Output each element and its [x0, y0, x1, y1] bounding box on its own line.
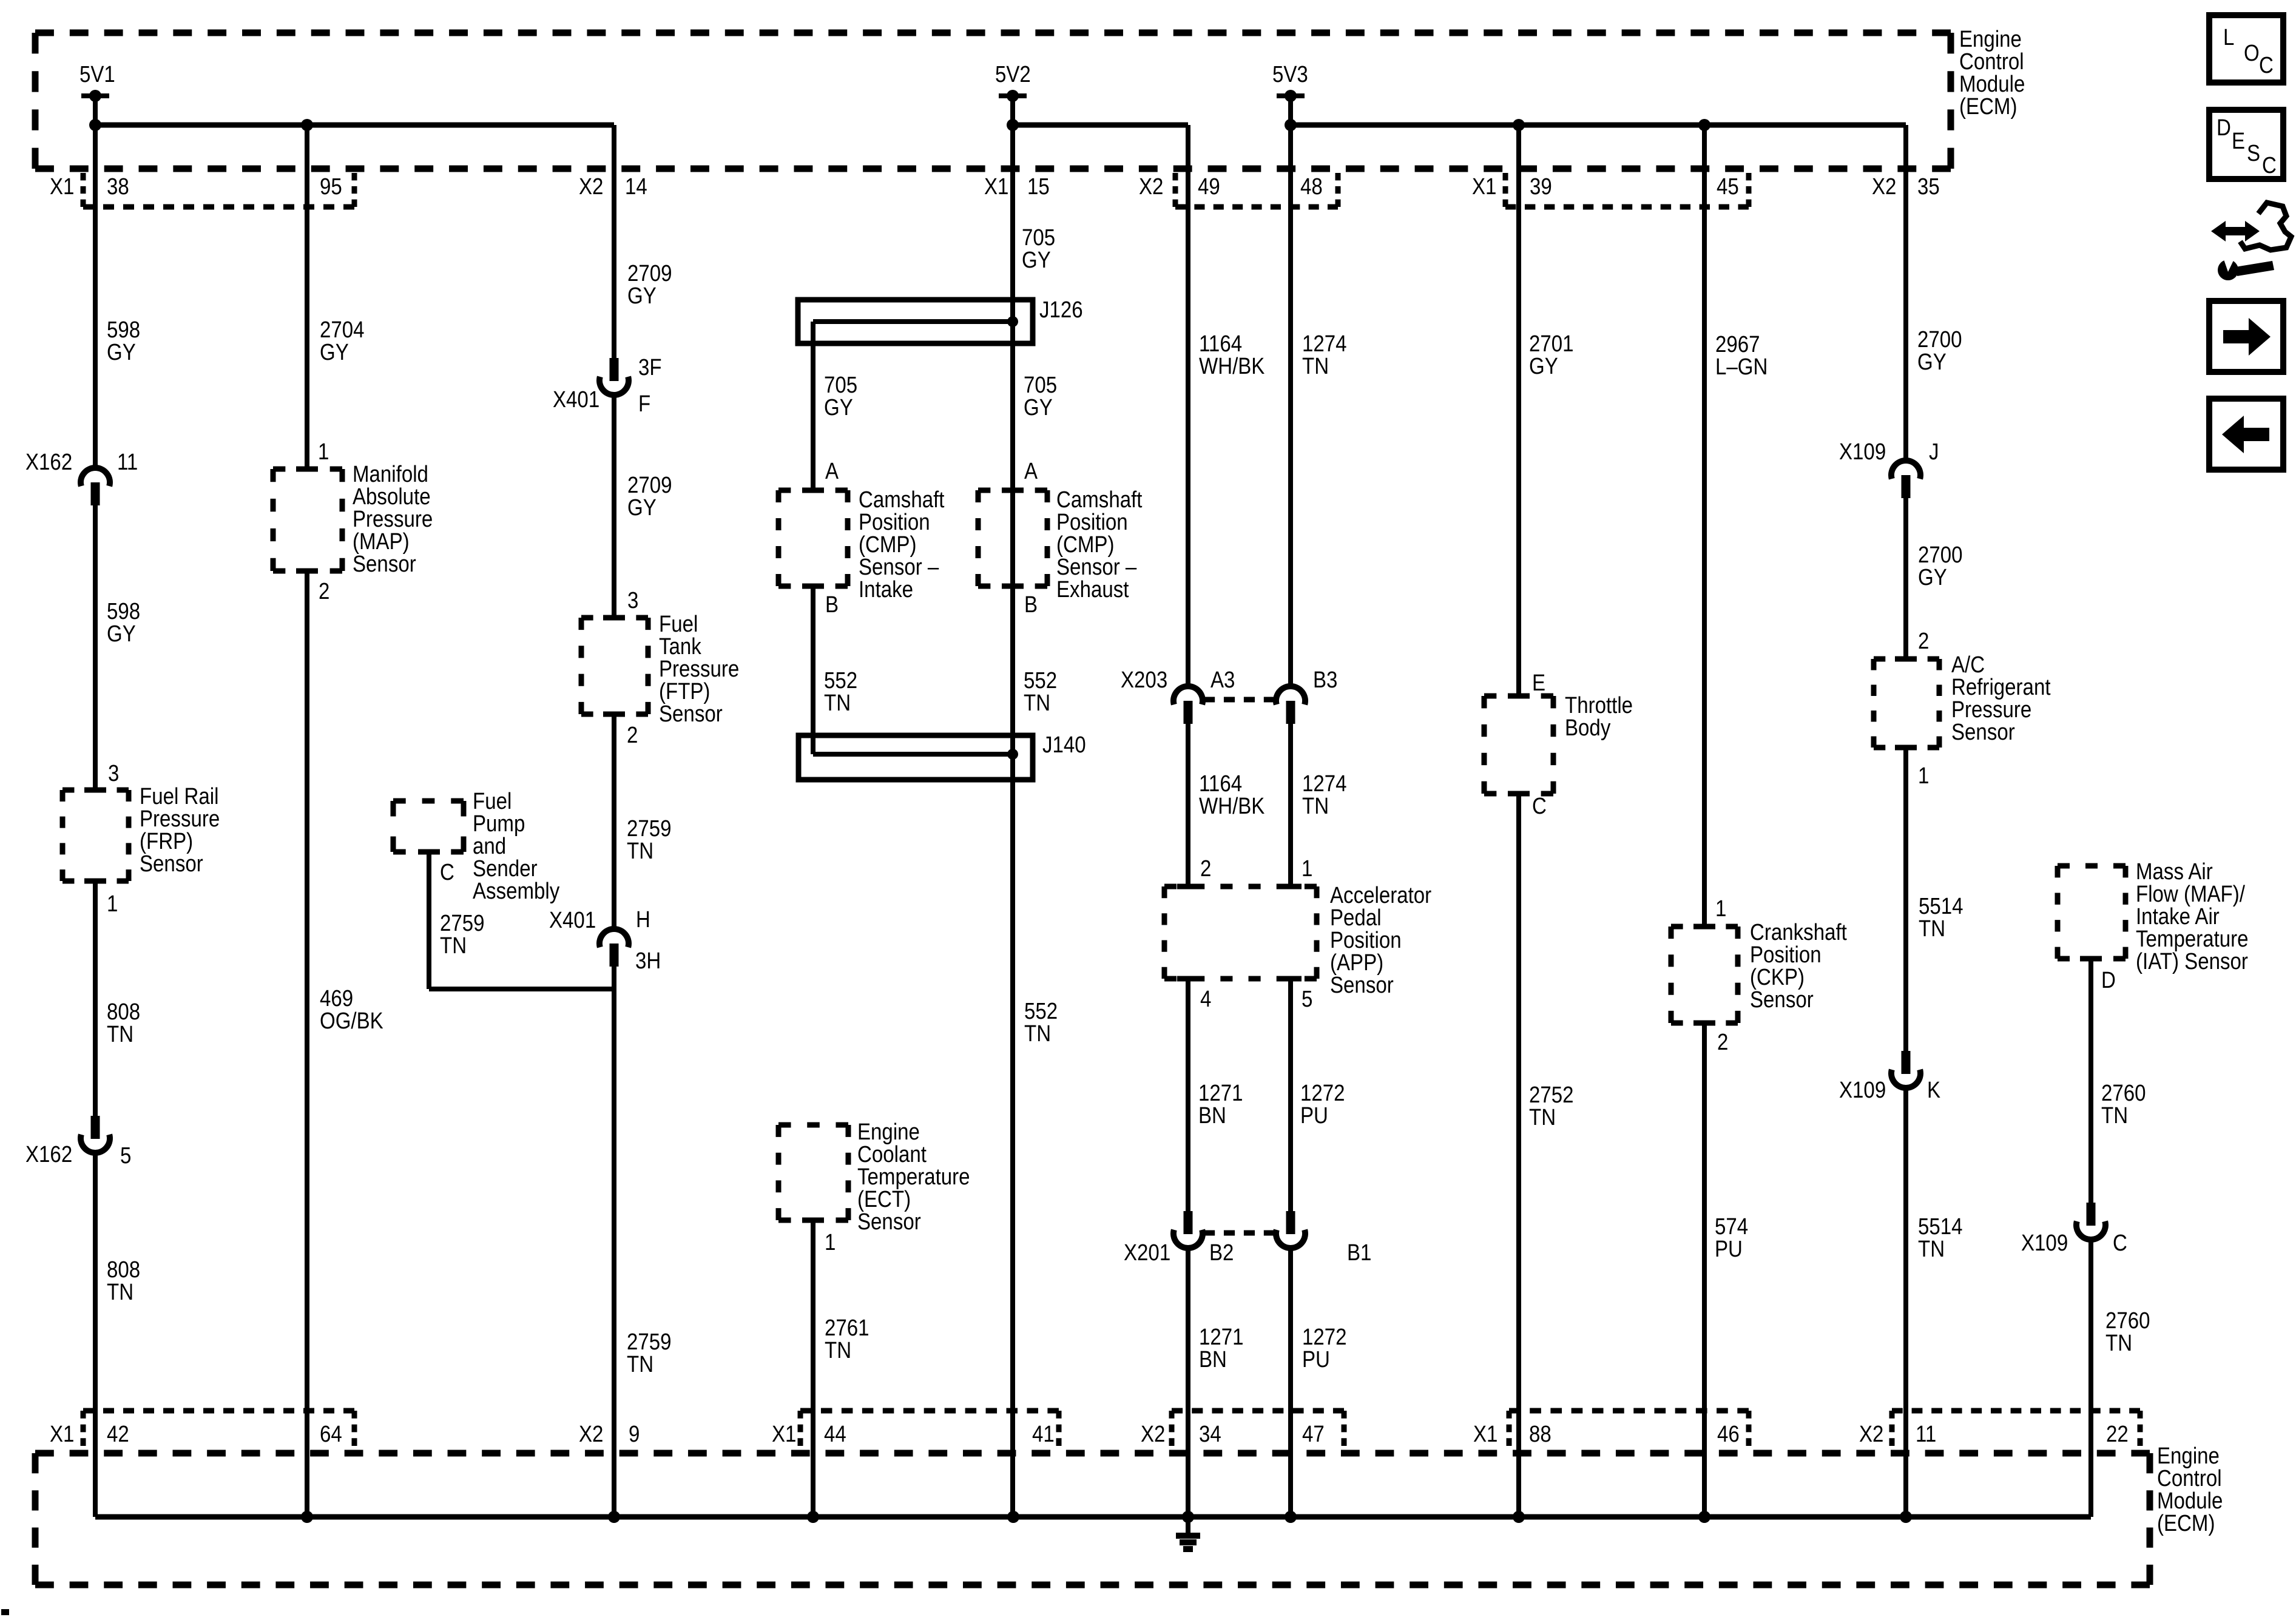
svg-text:46: 46	[1717, 1421, 1740, 1447]
svg-text:22: 22	[2106, 1421, 2129, 1447]
svg-text:H: H	[636, 906, 650, 933]
svg-text:B: B	[1024, 592, 1038, 618]
svg-text:2: 2	[627, 722, 638, 748]
svg-text:C: C	[2262, 152, 2277, 178]
svg-text:Exhaust: Exhaust	[1056, 576, 1129, 603]
svg-text:J140: J140	[1042, 732, 1086, 758]
svg-text:Sensor: Sensor	[659, 701, 723, 727]
svg-text:TN: TN	[2101, 1102, 2128, 1129]
svg-text:Sensor: Sensor	[1750, 987, 1814, 1013]
svg-text:TN: TN	[107, 1279, 133, 1305]
svg-text:X109: X109	[2021, 1230, 2068, 1256]
svg-text:1: 1	[107, 891, 118, 917]
svg-text:11: 11	[1916, 1421, 1936, 1447]
svg-text:3: 3	[108, 760, 119, 786]
svg-text:TN: TN	[627, 838, 653, 864]
svg-text:X1: X1	[984, 174, 1008, 200]
svg-text:X162: X162	[25, 449, 72, 475]
svg-text:X201: X201	[1124, 1240, 1170, 1266]
svg-text:GY: GY	[320, 339, 349, 365]
svg-text:B: B	[825, 592, 839, 618]
svg-text:TN: TN	[1024, 1021, 1051, 1047]
svg-text:3F: 3F	[638, 354, 662, 380]
svg-text:X2: X2	[1141, 1421, 1165, 1447]
svg-text:2: 2	[319, 578, 329, 604]
svg-text:C: C	[2113, 1230, 2127, 1256]
svg-text:WH/BK: WH/BK	[1199, 793, 1265, 819]
svg-text:TN: TN	[1918, 1236, 1945, 1262]
svg-text:1: 1	[1918, 763, 1929, 789]
svg-text:5V3: 5V3	[1272, 61, 1308, 87]
svg-text:K: K	[1927, 1077, 1940, 1103]
svg-text:B3: B3	[1313, 667, 1337, 693]
svg-text:15: 15	[1027, 174, 1050, 200]
svg-text:X1: X1	[50, 174, 74, 200]
svg-text:GY: GY	[107, 621, 136, 647]
svg-text:9: 9	[629, 1421, 640, 1447]
svg-text:X162: X162	[25, 1141, 72, 1167]
svg-text:E: E	[2232, 128, 2245, 154]
svg-text:GY: GY	[627, 283, 657, 309]
svg-text:2: 2	[1200, 856, 1211, 882]
svg-text:TN: TN	[1302, 793, 1329, 819]
svg-text:(ECM): (ECM)	[1959, 93, 2017, 120]
svg-text:39: 39	[1530, 174, 1552, 200]
svg-text:A: A	[825, 458, 839, 484]
svg-text:TN: TN	[2105, 1330, 2132, 1356]
svg-text:34: 34	[1199, 1421, 1221, 1447]
svg-text:OG/BK: OG/BK	[320, 1008, 383, 1034]
svg-text:GY: GY	[1529, 353, 1558, 379]
svg-text:TN: TN	[824, 690, 851, 716]
svg-text:X109: X109	[1839, 439, 1886, 465]
svg-text:GY: GY	[107, 339, 136, 365]
svg-text:(IAT) Sensor: (IAT) Sensor	[2136, 948, 2248, 974]
svg-text:1: 1	[825, 1229, 836, 1255]
svg-text:X401: X401	[553, 387, 599, 413]
svg-text:BN: BN	[1198, 1102, 1226, 1129]
svg-text:3: 3	[627, 587, 638, 613]
svg-text:J126: J126	[1039, 297, 1083, 323]
svg-text:95: 95	[320, 174, 342, 200]
svg-text:48: 48	[1300, 174, 1323, 200]
svg-text:L–GN: L–GN	[1715, 354, 1768, 380]
svg-text:PU: PU	[1300, 1102, 1328, 1129]
svg-text:5V2: 5V2	[995, 61, 1031, 87]
svg-text:X2: X2	[1139, 174, 1163, 200]
svg-text:5V1: 5V1	[79, 61, 115, 87]
svg-text:TN: TN	[1302, 353, 1329, 379]
svg-text:2: 2	[1918, 628, 1929, 654]
svg-text:TN: TN	[1024, 690, 1050, 716]
svg-text:41: 41	[1032, 1421, 1055, 1447]
svg-text:11: 11	[117, 449, 138, 475]
svg-text:X2: X2	[1859, 1421, 1883, 1447]
svg-text:B2: B2	[1209, 1240, 1234, 1266]
svg-text:Sensor: Sensor	[353, 551, 416, 577]
svg-text:X2: X2	[579, 174, 603, 200]
svg-text:Body: Body	[1565, 715, 1611, 741]
svg-text:X2: X2	[579, 1421, 603, 1447]
svg-text:Sensor: Sensor	[1330, 972, 1394, 998]
svg-text:Sensor: Sensor	[857, 1209, 921, 1235]
svg-text:C: C	[1532, 793, 1547, 819]
svg-text:X2: X2	[1872, 174, 1896, 200]
svg-text:C: C	[2259, 52, 2274, 78]
svg-text:L: L	[2223, 24, 2234, 50]
svg-text:Intake: Intake	[859, 576, 913, 603]
svg-text:14: 14	[625, 174, 647, 200]
svg-text:GY: GY	[1022, 247, 1051, 273]
svg-text:5: 5	[1302, 986, 1312, 1012]
svg-text:X1: X1	[50, 1421, 74, 1447]
svg-text:47: 47	[1302, 1421, 1325, 1447]
svg-text:A3: A3	[1210, 667, 1235, 693]
svg-text:O: O	[2244, 40, 2260, 66]
svg-text:(ECM): (ECM)	[2157, 1510, 2215, 1536]
svg-text:Assembly: Assembly	[473, 878, 559, 904]
svg-text:1: 1	[318, 439, 329, 465]
svg-text:5: 5	[120, 1143, 131, 1169]
svg-text:C: C	[440, 859, 454, 885]
svg-text:X1: X1	[1472, 174, 1496, 200]
svg-text:PU: PU	[1302, 1346, 1330, 1372]
svg-text:PU: PU	[1715, 1236, 1743, 1262]
svg-text:Sensor: Sensor	[140, 851, 203, 877]
svg-text:B1: B1	[1347, 1240, 1371, 1266]
svg-text:X401: X401	[549, 907, 596, 933]
svg-text:X203: X203	[1121, 667, 1167, 693]
svg-text:F: F	[638, 391, 650, 417]
svg-text:X1: X1	[772, 1421, 796, 1447]
svg-text:35: 35	[1917, 174, 1940, 200]
svg-text:TN: TN	[825, 1337, 851, 1363]
svg-text:64: 64	[320, 1421, 342, 1447]
svg-text:X109: X109	[1839, 1077, 1886, 1103]
svg-text:TN: TN	[627, 1351, 653, 1377]
svg-text:TN: TN	[1529, 1104, 1556, 1130]
svg-text:A: A	[1024, 458, 1038, 484]
svg-text:Sensor: Sensor	[1951, 719, 2015, 745]
svg-text:E: E	[1532, 670, 1545, 696]
svg-text:J: J	[1929, 439, 1939, 465]
svg-text:3H: 3H	[635, 948, 661, 974]
svg-text:44: 44	[824, 1421, 846, 1447]
svg-text:GY: GY	[1918, 564, 1947, 590]
svg-text:GY: GY	[1024, 394, 1053, 420]
svg-text:X1: X1	[1473, 1421, 1497, 1447]
svg-text:45: 45	[1717, 174, 1739, 200]
svg-text:WH/BK: WH/BK	[1199, 353, 1265, 379]
svg-text:S: S	[2247, 140, 2260, 166]
svg-text:2: 2	[1717, 1029, 1728, 1055]
svg-text:4: 4	[1200, 986, 1211, 1012]
svg-text:D: D	[2101, 967, 2116, 993]
svg-text:49: 49	[1198, 174, 1220, 200]
svg-text:GY: GY	[824, 394, 853, 420]
svg-text:42: 42	[107, 1421, 129, 1447]
svg-text:GY: GY	[1917, 349, 1947, 375]
svg-text:D: D	[2217, 115, 2231, 141]
svg-text:1: 1	[1715, 896, 1726, 922]
svg-text:BN: BN	[1199, 1346, 1227, 1372]
svg-text:TN: TN	[440, 933, 467, 959]
svg-text:88: 88	[1529, 1421, 1551, 1447]
svg-text:TN: TN	[1919, 916, 1945, 942]
svg-text:GY: GY	[627, 495, 657, 521]
svg-text:TN: TN	[107, 1021, 133, 1047]
svg-text:38: 38	[107, 174, 129, 200]
svg-text:1: 1	[1302, 856, 1312, 882]
